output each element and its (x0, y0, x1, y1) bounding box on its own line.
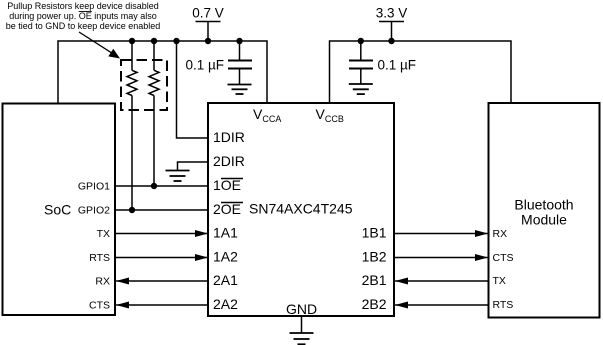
Bluetooth Module box (489, 103, 600, 318)
svg-text:2B2: 2B2 (362, 296, 387, 312)
wire 2B2 to RTS (arrow left) (395, 302, 488, 309)
svg-text:RX: RX (493, 228, 508, 240)
svg-text:GPIO2: GPIO2 (78, 205, 110, 217)
wire: 1DIR to rail A (177, 41, 209, 138)
svg-text:1B1: 1B1 (362, 225, 387, 241)
overline 1OE (221, 178, 243, 180)
ground under C1 (228, 85, 252, 95)
svg-text:1A1: 1A1 (213, 225, 238, 241)
pullup dashed box (121, 60, 167, 110)
svg-text:2OE: 2OE (213, 201, 241, 217)
svg-text:2B1: 2B1 (362, 272, 387, 288)
wire: VCCB rail (3.3V net) from chip VCCB to Bluetooth top (330, 41, 512, 103)
svg-text:2A1: 2A1 (213, 272, 238, 288)
chip U1 SN74AXC4T245 box (208, 103, 394, 316)
svg-text:TX: TX (493, 275, 506, 287)
svg-text:CTS: CTS (89, 300, 110, 312)
svg-text:1DIR: 1DIR (213, 129, 245, 145)
svg-text:be tied to GND to keep device: be tied to GND to keep device enabled (6, 21, 161, 31)
wire GPIO1 to 1OE (115, 185, 208, 187)
wire 2B1 to TX (arrow left) (395, 278, 488, 285)
node: R1 junction on GPIO2 wire (129, 207, 135, 213)
supply 3.3 V (376, 6, 408, 42)
node: rail B junction dots (358, 38, 395, 44)
svg-text:0.1 µF: 0.1 µF (378, 58, 417, 73)
wire TX to 1A1 (arrow right) (115, 230, 208, 237)
node: R2 junction on GPIO1 wire (151, 183, 157, 189)
wire RTS to 1A2 (arrow right) (115, 254, 208, 261)
resistor R2 (right pullup) (149, 41, 159, 186)
svg-text:Pullup Resistors keep device d: Pullup Resistors keep device disabled (7, 1, 159, 11)
wire RX to 2A1 (arrow left) (116, 278, 208, 285)
wire 1B2 to CTS (arrow right) (394, 254, 488, 261)
svg-text:1A2: 1A2 (213, 249, 238, 265)
svg-text:2DIR: 2DIR (213, 153, 245, 169)
wire 1B1 to RX (arrow right) (394, 230, 488, 237)
svg-text:SoC: SoC (44, 202, 71, 218)
svg-text:0.7 V: 0.7 V (192, 6, 224, 21)
svg-text:GPIO1: GPIO1 (78, 181, 110, 193)
svg-text:RX: RX (95, 276, 110, 288)
svg-text:0.1 µF: 0.1 µF (185, 58, 224, 73)
Bluetooth pin labels (493, 228, 514, 311)
capacitor C1 0.1uF (228, 41, 252, 85)
svg-text:TX: TX (97, 228, 110, 240)
wire: VCCA rail (0.7V net) from SoC top to chip VCCA (58, 41, 267, 103)
svg-text:1OE: 1OE (213, 177, 241, 193)
annotation: pullup resistor note (6, 1, 161, 31)
svg-text:2A2: 2A2 (213, 296, 238, 312)
supply 0.7 V (192, 6, 224, 42)
svg-text:3.3 V: 3.3 V (376, 6, 408, 21)
svg-text:Bluetooth: Bluetooth (514, 197, 573, 213)
svg-text:during power up. OE inputs may: during power up. OE inputs may also (9, 11, 157, 21)
SoC box (3, 104, 116, 316)
wire GPIO2 to 2OE (115, 209, 208, 211)
svg-text:CTS: CTS (493, 252, 514, 264)
ground under C2 (349, 84, 373, 94)
wire CTS to 2A2 (arrow left) (116, 302, 208, 309)
svg-text:1B2: 1B2 (362, 249, 387, 265)
ground at chip GND pin (290, 316, 314, 344)
SoC pin labels (78, 181, 110, 312)
overline 2OE (221, 202, 243, 204)
svg-text:SN74AXC4T245: SN74AXC4T245 (249, 201, 353, 217)
chip left pin labels (213, 129, 245, 312)
node: rail A junction dots (129, 38, 243, 44)
chip right pin labels (362, 225, 387, 313)
resistor R1 (left pullup) (127, 41, 137, 210)
capacitor C2 0.1uF (349, 41, 373, 84)
ground at 2DIR (166, 162, 209, 181)
svg-text:Module: Module (521, 212, 567, 228)
svg-text:RTS: RTS (493, 299, 514, 311)
svg-text:RTS: RTS (89, 252, 110, 264)
svg-text:GND: GND (286, 301, 317, 317)
annotation arrow (79, 32, 120, 59)
